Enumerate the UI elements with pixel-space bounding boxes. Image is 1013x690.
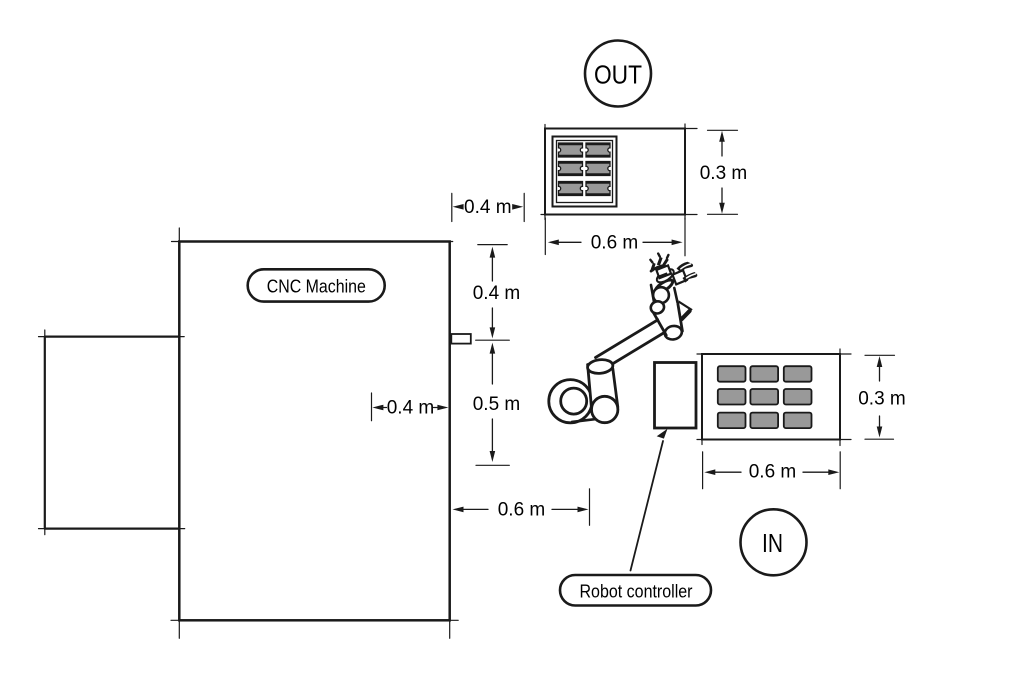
output 0.6m left arrowhead	[548, 240, 559, 246]
gripper left band shadow	[658, 272, 668, 278]
IN station circle	[741, 509, 807, 575]
machined part 3 (row2 col1)	[559, 162, 583, 176]
lower 0.6m right arrowhead	[578, 507, 589, 513]
svg-text:0.6 m: 0.6 m	[591, 232, 639, 253]
robot wrist collar band	[655, 267, 676, 285]
small 0.4m left arrowhead	[372, 405, 383, 411]
input 0.6m dimension line	[709, 471, 835, 473]
blank part row3 col2	[750, 413, 778, 429]
output tray rectangle	[545, 129, 685, 215]
robot base outer ring	[549, 380, 592, 423]
Robot controller label pill	[560, 575, 711, 606]
gap 0.4m dimension ticks	[452, 193, 524, 221]
robot forearm cylinder fill	[653, 299, 682, 335]
blank part row1 col2	[750, 366, 778, 382]
blank part row1 col1	[718, 366, 746, 382]
robot wrist lower ellipse	[649, 299, 666, 315]
gripper right finger white slits	[681, 264, 696, 278]
blank part row2 col2	[750, 389, 778, 405]
input 0.3m dimension ticks	[865, 355, 895, 439]
robot forearm sides	[652, 302, 683, 335]
input tray rectangle	[702, 354, 840, 440]
vertical 0.4m down arrowhead	[490, 327, 496, 338]
input tray corner overshoots	[697, 349, 851, 446]
output 0.3m down arrowhead	[719, 203, 725, 214]
gap 0.4m left arrowhead	[453, 204, 464, 210]
gripper left finger tips	[650, 254, 668, 263]
output 0.3m dimension line	[721, 135, 723, 207]
vertical 0.5m bottom tick	[476, 464, 509, 466]
robot base cylinder bottom circle	[592, 396, 618, 422]
robot base bottom tangent line	[572, 419, 599, 422]
gripper right upper finger	[677, 262, 694, 272]
gripper right mount band	[673, 270, 687, 284]
output parts container outer box	[553, 137, 617, 207]
machined part 1 (row1 col1)	[559, 143, 583, 157]
gap 0.4m right arrowhead	[512, 204, 523, 210]
controller pointer arrow line	[631, 441, 664, 571]
robot forearm bottom ellipse	[663, 324, 683, 341]
output 0.6m right arrowhead	[672, 240, 683, 246]
robot upper arm fill	[596, 319, 669, 368]
robot wrist cylinder fill	[650, 283, 679, 308]
gripper left claw fingers	[650, 257, 669, 272]
robot base cylinder sides	[588, 365, 618, 410]
input 0.3m down arrowhead	[877, 427, 883, 438]
svg-text:0.6 m: 0.6 m	[498, 499, 546, 520]
input 0.3m dimension line	[879, 361, 881, 431]
robot base cylinder top ellipse	[587, 358, 614, 374]
robot controller box	[655, 363, 697, 429]
output 0.3m dimension ticks	[708, 130, 738, 214]
small 0.4m shaft stubs	[381, 407, 439, 409]
vertical 0.5m down arrowhead	[490, 451, 496, 462]
small 0.4m right arrowhead	[437, 405, 448, 411]
machined part 6 (row3 col2)	[586, 182, 610, 196]
vertical 0.5m up arrowhead	[490, 343, 496, 354]
svg-text:OUT: OUT	[594, 60, 642, 90]
vertical 0.4m up arrowhead	[490, 247, 496, 258]
input 0.3m up arrowhead	[877, 356, 883, 367]
output tray corner overshoots	[541, 124, 697, 220]
input 0.6m left arrowhead	[704, 469, 715, 475]
svg-text:0.3 m: 0.3 m	[858, 389, 906, 410]
gripper left palm stroke	[651, 265, 665, 271]
input 0.6m extension lines	[703, 452, 841, 489]
blank part row3 col1	[718, 413, 746, 429]
robot wrist cone flap	[667, 297, 691, 319]
vertical 0.4m dimension ticks	[476, 245, 510, 341]
machined part 2 (row1 col2)	[586, 143, 610, 157]
blank part row3 col3	[784, 413, 812, 429]
CNC machine corner overshoots	[171, 228, 458, 638]
machined part 5 (row3 col1)	[559, 182, 583, 196]
output parts container inner box	[557, 141, 613, 203]
lower 0.6m dimension line	[457, 508, 583, 510]
spindle nub on CNC right edge	[451, 334, 471, 344]
svg-text:0.4 m: 0.4 m	[473, 283, 521, 304]
input 0.6m right arrowhead	[828, 469, 839, 475]
lower 0.6m right tick	[589, 489, 591, 526]
lower 0.6m left arrowhead	[453, 507, 464, 513]
svg-text:Robot controller: Robot controller	[580, 580, 693, 601]
svg-text:IN: IN	[762, 528, 783, 558]
robot base cylinder body	[588, 365, 618, 423]
svg-text:0.6 m: 0.6 m	[749, 462, 797, 483]
svg-text:0.5 m: 0.5 m	[473, 394, 521, 415]
robot wrist big circle	[653, 287, 669, 303]
blank part row2 col3	[784, 389, 812, 405]
CNC Machine label pill	[248, 269, 385, 301]
vertical 0.4m dimension line	[491, 252, 493, 333]
annex corner overshoots	[39, 330, 185, 535]
output 0.6m extension lines	[545, 218, 685, 256]
small 0.4m dimension left tick	[371, 393, 373, 421]
gripper right lower finger	[683, 272, 698, 283]
robot wrist sides	[651, 285, 678, 306]
svg-text:CNC Machine: CNC Machine	[267, 276, 366, 297]
robot upper arm outline	[596, 319, 669, 368]
svg-text:0.4 m: 0.4 m	[387, 398, 435, 419]
output 0.3m up arrowhead	[719, 131, 725, 142]
robot base inner circle	[561, 388, 587, 414]
blank part row2 col1	[718, 389, 746, 405]
CNC machine body rectangle	[179, 242, 449, 621]
controller pointer arrowhead	[657, 429, 668, 439]
robot wrist dark band	[654, 278, 675, 295]
gripper left mount band	[656, 265, 671, 278]
svg-text:0.4 m: 0.4 m	[464, 197, 512, 218]
output 0.6m dimension line	[553, 241, 678, 243]
vertical 0.5m dimension line	[491, 348, 493, 457]
robot wrist cone dark edge	[682, 311, 690, 319]
svg-text:0.3 m: 0.3 m	[700, 163, 748, 184]
blank part row1 col3	[784, 366, 812, 382]
machined part 4 (row2 col2)	[586, 162, 610, 176]
OUT station circle	[585, 41, 651, 107]
CNC annex rectangle (left)	[45, 337, 179, 529]
